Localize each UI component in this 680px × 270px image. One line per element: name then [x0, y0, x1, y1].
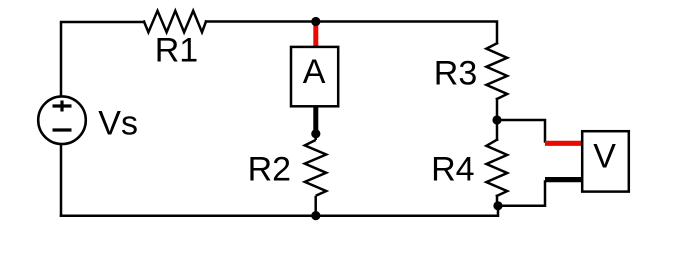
- red lead into voltmeter: [545, 141, 581, 146]
- red lead into ammeter: [313, 22, 318, 47]
- junction dot: node R4-bottom: [493, 201, 502, 210]
- junction dot: node top of ammeter branch: [311, 17, 320, 26]
- wire R2 bottom to bottom rail: [314, 196, 317, 216]
- Vs minus sign: [53, 128, 72, 131]
- wire voltmeter black lead to node under R4: [498, 182, 545, 206]
- wire R3 bottom to node: [496, 99, 499, 120]
- svg-text:R2: R2: [248, 151, 291, 189]
- ammeter U1 box: [291, 47, 338, 106]
- wire ammeter lead to R2: [314, 134, 317, 140]
- svg-text:R4: R4: [431, 150, 474, 188]
- black lead into voltmeter: [545, 177, 581, 182]
- wire left-bottom: Vs bottom down to bottom rail: [60, 146, 63, 216]
- wire bottom rail to node under R4: [61, 206, 498, 216]
- resistor R1: [144, 11, 206, 32]
- svg-text:Vs: Vs: [98, 105, 138, 143]
- wire top-left: Vs top to R1: [61, 22, 144, 96]
- junction dot: node ammeter-R2: [311, 129, 320, 138]
- Vs plus sign: [53, 101, 72, 112]
- junction dot: node R2-bottom rail: [311, 211, 320, 220]
- black lead out of ammeter: [313, 107, 318, 134]
- svg-text:A: A: [303, 53, 326, 91]
- svg-text:V: V: [593, 137, 616, 175]
- resistor R4: [496, 120, 499, 140]
- voltmeter U2 box: [582, 131, 629, 191]
- resistor R3: [486, 43, 507, 99]
- resistor R2: [305, 140, 326, 196]
- wire node R3R4 to voltmeter red lead: [497, 120, 545, 142]
- svg-text:R1: R1: [155, 31, 198, 69]
- svg-text:R3: R3: [434, 54, 477, 92]
- junction dot: node R3-R4: [492, 115, 501, 124]
- wire top: R1 to node A-top and to R3 corner: [206, 22, 497, 44]
- voltage source Vs circle: [38, 96, 86, 144]
